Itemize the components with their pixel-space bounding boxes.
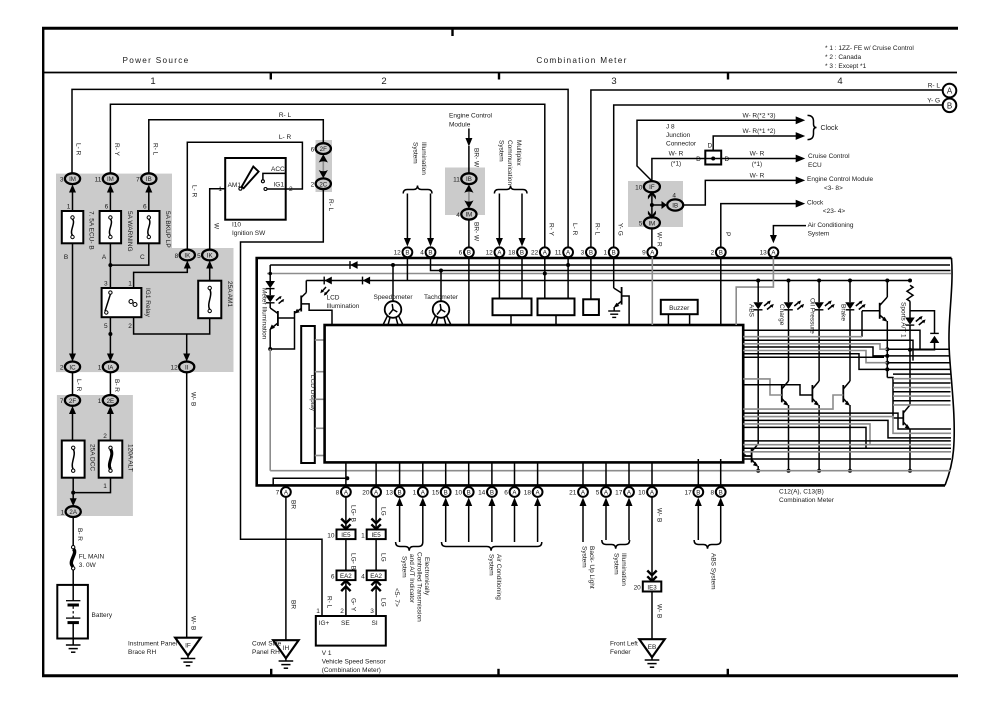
svg-text:BR- W: BR- W	[473, 148, 480, 168]
svg-text:IG+: IG+	[319, 620, 330, 627]
svg-text:IM: IM	[69, 176, 76, 183]
svg-text:LCD: LCD	[327, 295, 340, 302]
svg-text:B: B	[64, 254, 68, 261]
svg-text:P: P	[724, 232, 731, 236]
diode on bus4	[363, 277, 371, 285]
J8 D box	[696, 143, 729, 165]
svg-text:Module: Module	[449, 122, 471, 129]
svg-text:2: 2	[711, 250, 715, 257]
brace multiplex communication system	[494, 186, 527, 194]
svg-text:Engine Control: Engine Control	[449, 113, 493, 120]
svg-text:W- B: W- B	[189, 392, 196, 406]
internal box1	[493, 299, 532, 316]
bottom border ticks	[270, 669, 272, 676]
svg-text:1: 1	[218, 186, 222, 193]
svg-text:5: 5	[596, 489, 600, 496]
svg-text:LG: LG	[380, 507, 387, 516]
svg-text:W- R: W- R	[750, 172, 765, 179]
junction dots on T5 column	[885, 347, 889, 351]
wire DCC down to 2A	[72, 478, 74, 501]
meter frame with torn right edge	[257, 258, 952, 485]
svg-text:Cowl Side: Cowl Side	[252, 641, 282, 648]
svg-text:EA2: EA2	[340, 573, 352, 580]
wire meter drop x606	[605, 462, 607, 487]
ribbon wire y423.9	[743, 424, 870, 445]
ribbon wire band1 y396.1	[893, 395, 951, 397]
svg-text:Communication: Communication	[506, 140, 513, 186]
chevrons up into EA2, wire to V1 SE	[341, 580, 356, 616]
transistor T2 charge driver	[782, 381, 789, 471]
arrow from ECM down	[465, 129, 472, 174]
ground IH cowl side panel RH	[252, 640, 299, 668]
svg-text:2F: 2F	[69, 398, 76, 405]
bus4 junction dots	[756, 279, 760, 283]
meter pin 8 B	[710, 487, 725, 497]
wire 8A to IE5 with chevrons	[341, 497, 356, 530]
torn edge curve	[945, 258, 954, 485]
svg-text:D: D	[708, 143, 713, 150]
svg-text:IG1 Relay: IG1 Relay	[144, 288, 151, 318]
svg-text:W: W	[213, 223, 220, 230]
transistor T5 (sports AT driver top)	[862, 281, 888, 378]
ribbon wire band1 y400.7	[893, 400, 951, 402]
meter illumination LED string	[265, 265, 284, 308]
brace illumination bottom	[602, 540, 630, 549]
svg-text:V 1: V 1	[322, 650, 332, 657]
svg-text:R- Y: R- Y	[548, 223, 555, 237]
arrow up into 2E	[107, 406, 114, 441]
wire meter drop x491.9	[491, 462, 493, 487]
connector 11 IM	[95, 173, 118, 184]
ribbon wire y413.1	[743, 413, 951, 429]
svg-text:Engine Control Module: Engine Control Module	[807, 176, 874, 183]
wire meter drop x537.6	[537, 462, 539, 487]
svg-text:12: 12	[486, 250, 494, 257]
gray panel DCC/ALT G3	[57, 395, 133, 516]
svg-text:8: 8	[175, 253, 179, 260]
ribbon wire band1 y378.7	[893, 378, 951, 380]
svg-text:I10: I10	[232, 222, 241, 229]
fuse 7.5A ECU-B	[62, 204, 95, 262]
wire IG1 to 8 IK (L-R)	[187, 142, 302, 249]
svg-text:2: 2	[311, 182, 315, 189]
svg-text:25A AM1: 25A AM1	[226, 281, 233, 307]
svg-text:R- Y: R- Y	[113, 143, 120, 157]
ribbon wire ext y369.4	[887, 368, 950, 370]
wire meter drop x629	[628, 462, 630, 487]
meter pin 20 A	[362, 487, 381, 497]
wire 2B up to Clock 23-4 (P)	[721, 204, 797, 248]
meter pin 4 B	[420, 247, 435, 257]
J8 chevrons up to IF, right to IB, down to IM	[648, 191, 667, 219]
meter pin 15 B	[432, 487, 451, 497]
svg-text:J 8: J 8	[666, 124, 675, 131]
wire bus Y-G to circle B	[614, 105, 943, 248]
connector 2 2C	[311, 178, 331, 189]
svg-text:System: System	[498, 140, 505, 162]
svg-text:B: B	[719, 489, 723, 496]
svg-text:Fender: Fender	[610, 649, 631, 656]
svg-text:11: 11	[453, 177, 460, 184]
wire 13A elbow into big box	[736, 257, 773, 325]
svg-text:2: 2	[381, 76, 386, 87]
wire meter drop x652	[651, 462, 653, 487]
svg-text:2A: 2A	[69, 509, 77, 516]
svg-text:10: 10	[327, 532, 335, 539]
transistor T3 oil pressure driver	[812, 381, 819, 471]
fusible link FL MAIN 3.0W	[71, 546, 104, 571]
gray panel fuse block G1	[56, 174, 172, 373]
wire D-box up to clock W-R(*1*2)	[713, 136, 797, 151]
svg-text:LG: LG	[380, 553, 387, 562]
svg-text:12: 12	[394, 250, 402, 257]
svg-text:B: B	[467, 489, 471, 496]
svg-text:Ignition SW: Ignition SW	[232, 230, 266, 237]
arrows 5A 17A illumination	[603, 498, 610, 541]
wire 20A to IE5-2 with chevrons	[371, 497, 386, 530]
svg-text:L- R: L- R	[279, 134, 292, 141]
connector 7 IB	[136, 173, 156, 184]
diode on bus1	[350, 261, 358, 269]
connector ring A	[943, 84, 957, 98]
svg-text:9: 9	[642, 250, 646, 257]
ribbon wire band1 y374.1	[893, 373, 951, 375]
svg-text:25A DCC: 25A DCC	[89, 444, 96, 471]
meter pin 14 B	[478, 487, 497, 497]
svg-text:B: B	[405, 250, 409, 257]
LED light arrows	[276, 297, 281, 301]
svg-text:Power Source: Power Source	[122, 56, 189, 65]
svg-text:10: 10	[455, 489, 463, 496]
transistor Q3 (1B) with ground	[608, 257, 629, 325]
Charge LED	[778, 281, 804, 382]
ribbon wire band1 y387.6	[893, 387, 951, 389]
svg-text:SI: SI	[372, 620, 378, 627]
wire FL MAIN to battery	[72, 570, 74, 601]
svg-text:W- R(*1 *2): W- R(*1 *2)	[742, 128, 775, 135]
ribbon wire stepped y343.8	[743, 344, 887, 349]
meter pin 7 A	[276, 487, 291, 497]
svg-text:1: 1	[413, 489, 417, 496]
svg-text:Instrument Panel: Instrument Panel	[128, 641, 178, 648]
svg-text:15: 15	[432, 489, 440, 496]
wire R-L fuse BKUP to 2F	[149, 120, 323, 174]
svg-text:L- R: L- R	[571, 223, 578, 236]
gray panel ECM IB/IM G5	[445, 168, 485, 216]
brace air conditioning	[442, 542, 542, 551]
svg-text:EB: EB	[648, 644, 657, 651]
arrow into 3 IM	[69, 185, 76, 212]
svg-text:System: System	[487, 554, 494, 576]
svg-text:4: 4	[456, 212, 460, 219]
meter pin 18 B	[508, 247, 527, 257]
svg-text:Brake: Brake	[839, 304, 846, 321]
svg-text:1: 1	[61, 509, 65, 516]
svg-text:3: 3	[370, 608, 374, 615]
svg-text:18: 18	[508, 250, 516, 257]
wire air conditioning system to 13A	[773, 226, 806, 237]
svg-text:BR: BR	[290, 500, 297, 509]
ribbon wire stepped y409.1	[743, 395, 843, 409]
svg-text:5A BKUP LP: 5A BKUP LP	[164, 211, 171, 248]
meter pin 10 B	[455, 487, 474, 497]
svg-text:System: System	[401, 556, 408, 578]
svg-text:D: D	[696, 156, 701, 163]
svg-text:Tachometer: Tachometer	[424, 294, 459, 301]
svg-text:<3- 8>: <3- 8>	[824, 185, 843, 192]
arrow multiplex to 12A	[496, 194, 503, 247]
svg-text:Controlled Transmission: Controlled Transmission	[416, 552, 423, 622]
arrowhead clock line1	[796, 116, 806, 124]
brace ECT	[396, 542, 423, 551]
svg-text:Combination Meter: Combination Meter	[536, 56, 627, 65]
section ticks on header line	[270, 73, 272, 80]
svg-text:Electronically: Electronically	[423, 557, 430, 596]
svg-text:IC: IC	[69, 364, 76, 371]
svg-text:LG- B: LG- B	[349, 505, 356, 522]
connector 4 IM (ECM)	[456, 209, 476, 220]
transistor T6 sports AT lower driver	[887, 378, 910, 471]
svg-text:1: 1	[98, 365, 102, 372]
wire bus R-L to circle A	[591, 90, 943, 248]
svg-text:(Combination Meter): (Combination Meter)	[322, 667, 381, 674]
fuse 120A ALT	[99, 433, 134, 490]
svg-text:B: B	[428, 250, 432, 257]
svg-text:Air Conditioning: Air Conditioning	[495, 554, 502, 600]
svg-text:17: 17	[615, 489, 623, 496]
svg-text:<5- 7>: <5- 7>	[393, 588, 400, 607]
wire Q1 node to Q2 emitter	[270, 311, 294, 349]
svg-text:1: 1	[361, 532, 365, 539]
svg-text:R- L: R- L	[151, 143, 158, 156]
svg-text:Front Left: Front Left	[610, 641, 638, 648]
connector 2 IC	[60, 362, 80, 373]
svg-text:2: 2	[60, 365, 64, 372]
wire 2B into big box	[720, 257, 722, 325]
arrow into 5 IK	[206, 261, 213, 281]
border top	[42, 27, 958, 30]
brace illumination system (top)	[403, 186, 432, 194]
svg-text:8: 8	[710, 489, 714, 496]
svg-text:B: B	[696, 489, 700, 496]
svg-text:Back- Up Light: Back- Up Light	[588, 546, 595, 589]
svg-text:L- R: L- R	[75, 143, 82, 156]
svg-text:3: 3	[581, 250, 585, 257]
wire meter drop x376.1	[375, 462, 377, 487]
svg-text:10: 10	[638, 489, 646, 496]
svg-text:IK: IK	[207, 253, 214, 260]
ribbon wire y459.0	[743, 458, 951, 460]
svg-text:Speedometer: Speedometer	[373, 294, 413, 301]
wire meter drop x399.6	[399, 462, 401, 487]
wire 7A BR to ground IH	[285, 497, 287, 640]
resistor sports AT	[907, 285, 913, 301]
double chevron IB to IM	[464, 185, 473, 209]
svg-text:IF: IF	[185, 643, 191, 650]
svg-text:IK: IK	[184, 253, 191, 260]
svg-text:7: 7	[276, 489, 280, 496]
wire IE5 to EA2 LG-B	[345, 539, 347, 571]
meter pin 6 A	[504, 487, 519, 497]
meter pin 22 A	[531, 247, 550, 257]
svg-text:IB: IB	[466, 176, 472, 183]
junction dot Q1 emitter bottom	[268, 347, 272, 351]
arrow 21A back-up light	[580, 498, 587, 543]
wire fuse A down to relay pin3	[109, 243, 111, 288]
svg-text:Illumination: Illumination	[327, 303, 360, 310]
ribbon wire y416.6	[743, 417, 951, 434]
svg-text:Connector: Connector	[666, 141, 697, 148]
svg-text:* 2 : Canada: * 2 : Canada	[825, 54, 862, 61]
svg-text:LCD Display: LCD Display	[309, 375, 316, 412]
connector 1 IA	[98, 362, 118, 373]
ribbon wire stepped y347.0	[743, 347, 887, 356]
wire ALT down elbow to node	[73, 478, 110, 493]
svg-text:3: 3	[611, 76, 616, 87]
ribbon wire ext y362.7	[887, 362, 950, 364]
svg-text:3. 0W: 3. 0W	[79, 562, 97, 569]
wire IE5-2 to EA2-2 LG	[375, 539, 377, 571]
ignition switch I10 box	[218, 158, 293, 237]
fuse 25A DCC	[62, 441, 96, 478]
svg-text:W- B: W- B	[656, 604, 663, 618]
arrow into 8 IK	[184, 261, 191, 269]
wire fuse B down to IC	[72, 243, 74, 358]
svg-text:C: C	[140, 254, 145, 261]
svg-text:2: 2	[103, 433, 107, 440]
svg-text:R- L: R- L	[279, 112, 292, 119]
svg-text:B- R: B- R	[76, 528, 83, 541]
svg-text:1: 1	[150, 76, 155, 87]
svg-text:2: 2	[128, 323, 132, 330]
wire II W-B down to ground IF	[186, 372, 188, 637]
svg-text:2E: 2E	[107, 398, 115, 405]
svg-text:B: B	[589, 250, 593, 257]
svg-text:11: 11	[555, 250, 562, 257]
meter pin 6 B	[459, 247, 474, 257]
svg-text:IB: IB	[146, 176, 152, 183]
ribbon wire y420.4	[743, 420, 951, 438]
svg-text:17: 17	[684, 489, 692, 496]
speedometer gauge	[373, 263, 413, 325]
ribbon wire band1 y404.9	[893, 404, 951, 406]
brace ABS	[694, 540, 721, 549]
arrow into 12 II	[183, 354, 190, 362]
svg-text:G- Y: G- Y	[350, 598, 357, 612]
svg-text:Battery: Battery	[92, 612, 113, 619]
connector 4 IB (J8)	[667, 193, 683, 211]
svg-text:FL MAIN: FL MAIN	[79, 553, 105, 560]
svg-text:11: 11	[95, 177, 102, 184]
meter pin 2 B	[711, 247, 726, 257]
svg-text:Combination Meter: Combination Meter	[779, 497, 835, 504]
svg-text:Junction: Junction	[666, 132, 691, 139]
fuse 5A BKUP LP	[138, 204, 171, 262]
top border divider tick	[451, 28, 453, 36]
ribbon wire stepped y353.7	[743, 354, 887, 370]
svg-text:II: II	[185, 364, 189, 371]
svg-text:B: B	[467, 250, 471, 257]
svg-text:4: 4	[420, 250, 424, 257]
svg-text:LG- B: LG- B	[349, 553, 356, 570]
wire W-R (*1) IF to cruise control ECU	[652, 159, 797, 182]
wire meter drop x514.5	[514, 462, 516, 487]
svg-text:5: 5	[104, 323, 108, 330]
svg-text:C12(A), C13(B): C12(A), C13(B)	[779, 489, 824, 496]
meter pin 13 B	[386, 487, 405, 497]
wire LED node down to bottom return	[269, 349, 271, 471]
svg-text:Vehicle Speed Sensor: Vehicle Speed Sensor	[322, 659, 387, 666]
connector 10 IE5	[327, 530, 355, 540]
ribbon wire y427.4	[743, 427, 866, 448]
svg-text:Clock: Clock	[821, 125, 839, 132]
svg-text:and A/T Indicator: and A/T Indicator	[408, 554, 415, 604]
meter pin 11 A	[555, 247, 573, 257]
svg-text:Multiplex: Multiplex	[515, 140, 522, 166]
svg-text:Illumination: Illumination	[620, 553, 627, 586]
arrow into 1 2A	[70, 498, 77, 506]
fuse 25A AM1	[198, 281, 233, 319]
svg-text:Y- G: Y- G	[616, 223, 623, 236]
meter pin 13 A	[760, 247, 779, 257]
svg-text:20: 20	[634, 585, 642, 592]
svg-text:Sports A/T 1: Sports A/T 1	[900, 302, 907, 338]
connector 11 IB (ECM)	[453, 173, 476, 184]
fuse 5A WARNING	[100, 204, 133, 262]
meter pin 17 A	[615, 487, 634, 497]
svg-text:2C: 2C	[319, 181, 327, 188]
arrowhead ECM right	[796, 177, 806, 185]
arrow into 2 IC	[69, 354, 76, 362]
ABS LED	[748, 281, 774, 444]
svg-text:R- L: R- L	[327, 199, 334, 212]
svg-text:ACC: ACC	[271, 166, 285, 173]
meter pin 3 B	[581, 247, 596, 257]
svg-text:W- B: W- B	[656, 508, 663, 522]
svg-text:A: A	[947, 87, 953, 96]
meter pin 12 A	[486, 247, 505, 257]
svg-text:IA: IA	[107, 364, 114, 371]
svg-text:BR- W: BR- W	[473, 222, 480, 242]
svg-text:IE5: IE5	[341, 532, 351, 539]
svg-text:10: 10	[635, 185, 643, 192]
meter pin 10 A	[638, 487, 657, 497]
gray return line bottom	[270, 470, 951, 472]
meter pin 12 B	[394, 247, 413, 257]
wire IM down to 6B	[468, 220, 470, 248]
svg-text:B: B	[444, 489, 448, 496]
connector 7 2F(lower)	[60, 395, 80, 406]
svg-text:W- R: W- R	[655, 232, 662, 247]
svg-text:4: 4	[672, 193, 676, 200]
svg-text:SE: SE	[341, 620, 350, 627]
ribbon wire band1 y383.0	[893, 382, 951, 384]
connector 1 2A	[61, 506, 81, 517]
junction dot fuse A/C	[108, 263, 112, 267]
ground below battery	[66, 639, 81, 653]
ribbon wire y448.2	[743, 447, 951, 449]
svg-text:Oil Pressure: Oil Pressure	[808, 298, 815, 334]
ground EB front left fender	[610, 639, 665, 667]
svg-text:3: 3	[104, 280, 108, 287]
border left	[42, 27, 44, 676]
connector 5 IM (J8)	[639, 217, 660, 228]
connector 6 2F	[311, 143, 331, 154]
bus2 y270.5	[431, 253, 951, 271]
wire relay pin1 up to IK1	[134, 266, 188, 288]
junction dot pin5 line	[108, 332, 112, 336]
arrows 15B..18A up from AC brace	[442, 498, 449, 543]
